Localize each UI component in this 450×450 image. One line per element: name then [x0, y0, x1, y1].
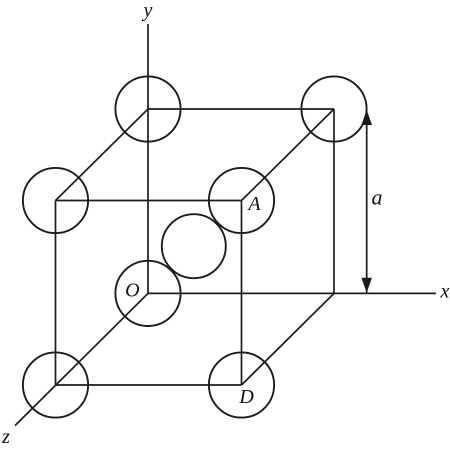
- svg-text:A: A: [246, 193, 261, 215]
- atom back-top-left: [115, 76, 180, 141]
- atom front-top-left: [23, 168, 88, 233]
- cube front-right edge: [241, 201, 243, 386]
- y-axis: [147, 24, 149, 293]
- atom D front-bottom-right: [209, 352, 274, 417]
- cube front-top edge: [56, 200, 242, 202]
- dimension line a: [366, 111, 368, 293]
- arrowhead up: [361, 110, 372, 125]
- arrowhead down: [361, 278, 372, 293]
- cube back-top edge: [148, 108, 334, 110]
- atom A front-top-right: [209, 168, 274, 233]
- x-axis: [148, 292, 436, 294]
- cube front-left edge: [55, 201, 57, 386]
- atom back-top-right: [301, 76, 366, 141]
- cube oblique edge bottom-right: [242, 293, 335, 385]
- cube back-right edge: [333, 109, 335, 293]
- cube oblique edge top-right: [242, 109, 335, 201]
- cube oblique edge top-left: [56, 109, 149, 201]
- svg-text:a: a: [372, 185, 383, 210]
- cube front-bottom edge: [56, 384, 242, 386]
- atom O origin: [115, 261, 180, 326]
- svg-text:O: O: [125, 280, 139, 302]
- z-axis: [15, 293, 148, 425]
- atom body-center: [162, 214, 226, 278]
- svg-text:y: y: [142, 0, 153, 22]
- svg-text:z: z: [1, 426, 10, 448]
- atom front-bottom-left: [23, 352, 88, 417]
- svg-text:D: D: [238, 386, 254, 408]
- svg-text:x: x: [440, 280, 450, 302]
